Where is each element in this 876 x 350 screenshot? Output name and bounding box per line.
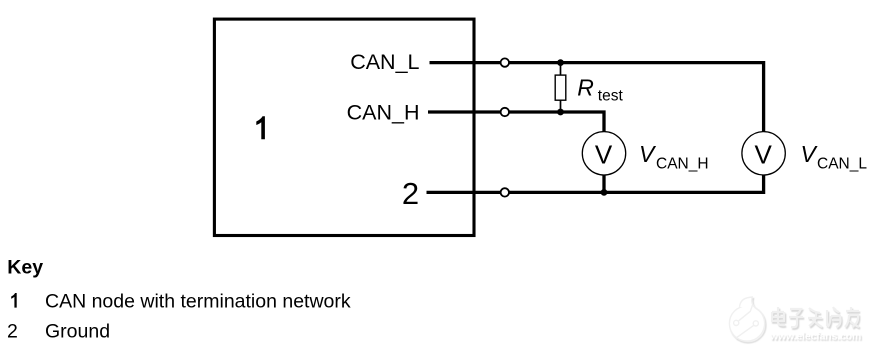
terminal ground	[501, 188, 509, 196]
svg-text:CAN_L: CAN_L	[817, 156, 867, 173]
svg-text:CAN_H: CAN_H	[656, 156, 709, 173]
wire resistor branch	[560, 63, 562, 112]
watermark top pass	[729, 297, 861, 343]
svg-text:test: test	[598, 87, 624, 104]
voltmeter V1	[582, 132, 625, 175]
svg-text:V: V	[801, 141, 819, 167]
wire V1 bottom	[602, 174, 605, 194]
svg-text:V: V	[639, 141, 657, 167]
wire CAN_H	[428, 112, 604, 132]
wire ground	[427, 191, 764, 194]
wire V2 bottom	[762, 174, 765, 194]
watermark shadow pass	[731, 299, 863, 345]
voltmeter V2	[742, 132, 785, 175]
svg-text:R: R	[577, 75, 594, 101]
svg-text:V: V	[755, 140, 773, 170]
key item 1	[11, 293, 17, 308]
svg-text:Key: Key	[7, 256, 43, 278]
junction dot CAN_H/resistor	[557, 109, 564, 116]
wire CAN_L	[430, 63, 764, 132]
terminal CAN_L	[501, 58, 509, 66]
svg-text:Ground: Ground	[45, 321, 110, 343]
svg-text:2: 2	[7, 321, 18, 343]
svg-text:CAN node with termination netw: CAN node with termination network	[45, 291, 351, 313]
svg-text:CAN_H: CAN_H	[347, 101, 420, 125]
terminal CAN_H	[501, 108, 509, 116]
box node 1	[214, 19, 474, 235]
junction dot V1/ground	[601, 189, 608, 196]
svg-text:V: V	[595, 140, 613, 170]
resistor R_test	[555, 75, 566, 100]
svg-text:CAN_L: CAN_L	[350, 50, 419, 74]
label 1	[256, 116, 265, 139]
svg-text:2: 2	[402, 176, 419, 211]
junction dot CAN_L/resistor	[557, 59, 564, 66]
